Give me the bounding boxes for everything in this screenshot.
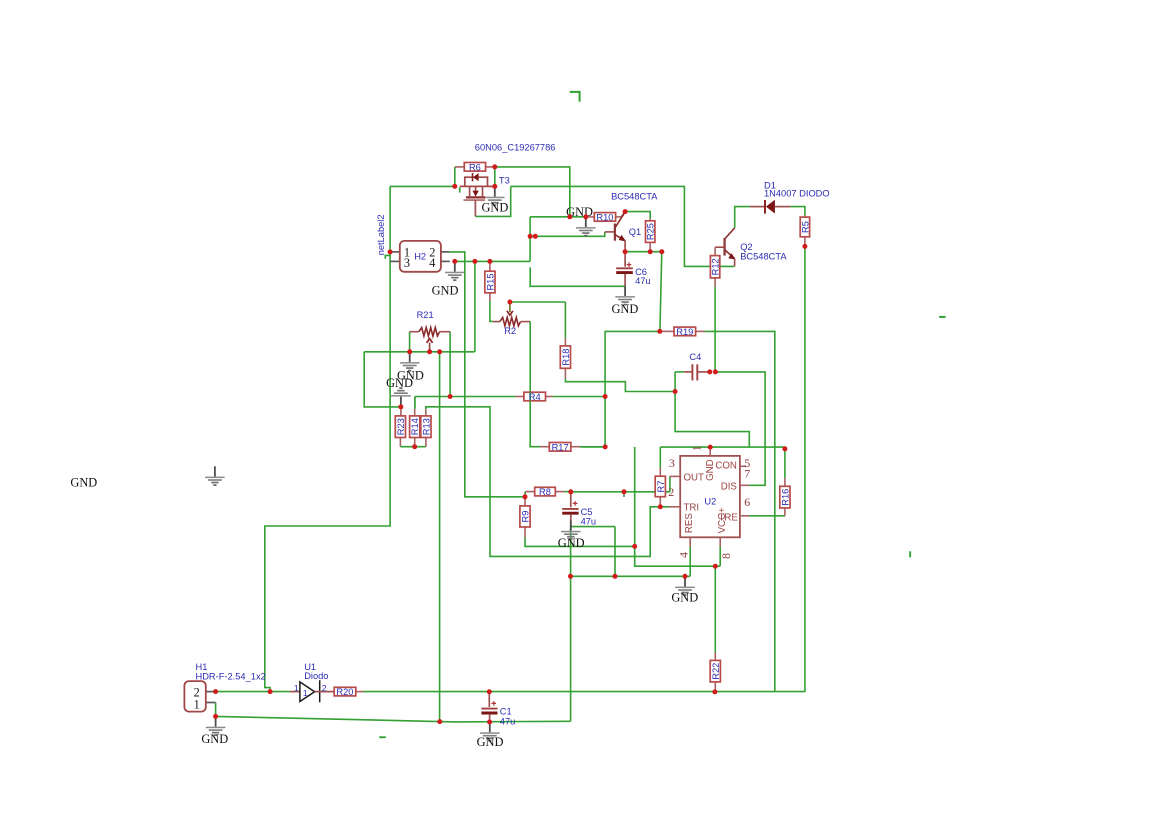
svg-text:VCC+: VCC+ <box>717 507 728 533</box>
svg-text:BC548CTA: BC548CTA <box>611 192 658 202</box>
wire H2 pin2 down to R8 node <box>450 252 525 497</box>
wire R12 bottom col <box>714 287 716 372</box>
wire C5 gnd col <box>570 527 572 722</box>
resistor R13 <box>421 409 432 446</box>
wire RES pin4 col <box>689 547 691 577</box>
wire R20 to right rail bottom <box>363 691 805 693</box>
wire C4 left stub <box>675 371 684 373</box>
wire T3 source loop <box>475 186 510 216</box>
wire R19 left col down <box>605 331 660 447</box>
svg-text:6: 6 <box>744 495 750 509</box>
wire R6 right to Q1 GND node <box>495 167 570 217</box>
wire R14 col row to junction <box>415 396 450 398</box>
svg-text:R20: R20 <box>336 687 353 697</box>
svg-text:C4: C4 <box>689 352 701 362</box>
potentiometer R21 <box>410 310 451 352</box>
resistor R17 <box>540 442 605 452</box>
wire R19 right to right rail <box>705 331 775 691</box>
svg-text:47u: 47u <box>500 717 516 727</box>
wire R23-R14-R13 bottom row <box>400 446 426 448</box>
svg-text:R7: R7 <box>656 481 666 493</box>
svg-text:60N06_C19267786: 60N06_C19267786 <box>475 142 556 152</box>
capacitor C6 47u <box>616 252 650 286</box>
wire C4 right to DIS col <box>715 372 765 485</box>
resistor R10 <box>586 212 625 223</box>
wire R2 right col to R17 <box>530 322 540 447</box>
resistor R6 <box>455 162 495 172</box>
wire R21 left lead col <box>409 332 411 352</box>
wire C6 bottom row <box>530 267 625 286</box>
wire R15 bottom to R2 <box>490 301 493 322</box>
svg-text:1: 1 <box>303 688 308 698</box>
svg-text:GND: GND <box>70 476 97 490</box>
diode D1 1N4007 <box>750 180 830 213</box>
wire R5 bottom right rail <box>804 246 806 691</box>
svg-text:2: 2 <box>322 683 327 693</box>
resistor R23 <box>395 407 406 447</box>
wire T3 gate rail left <box>454 167 456 186</box>
svg-text:R8: R8 <box>539 487 551 497</box>
stray mark right small vertical <box>909 551 911 557</box>
ground R21 row <box>400 352 420 372</box>
wire C5 bottom row <box>571 526 615 528</box>
wire R2 wiper row <box>510 301 566 303</box>
svg-text:R9: R9 <box>521 511 531 523</box>
wire R21 row left drop to GND2 node <box>364 352 401 407</box>
wire OUT jog <box>669 476 671 492</box>
ground C5 <box>561 521 581 541</box>
wire Q2 collector to D1 <box>735 207 750 228</box>
svg-text:GND: GND <box>201 732 228 746</box>
ground U2 RES row <box>675 576 695 596</box>
capacitor C5 47u <box>562 492 596 527</box>
svg-text:HDR-F-2.54_1x2: HDR-F-2.54_1x2 <box>196 672 266 682</box>
resistor R9 <box>520 497 531 538</box>
resistor R14 <box>410 397 421 447</box>
wire top rail to Q2 emitter <box>511 186 735 266</box>
stray mark top corner <box>570 92 580 102</box>
svg-text:GND: GND <box>481 201 508 215</box>
svg-text:U2: U2 <box>704 497 716 507</box>
wire D1 anode to R5 <box>790 207 805 216</box>
wire R6 right down to T3 drain <box>494 167 496 187</box>
svg-text:DIS: DIS <box>721 481 738 492</box>
wire H2 pin4 row <box>455 260 530 262</box>
svg-text:GND: GND <box>611 302 638 316</box>
capacitor C1 47u <box>481 692 515 727</box>
svg-text:R6: R6 <box>469 162 481 172</box>
svg-text:RES: RES <box>684 513 695 533</box>
svg-text:3: 3 <box>404 256 410 270</box>
svg-text:TRI: TRI <box>684 502 700 513</box>
capacitor C4 <box>684 352 708 380</box>
svg-text:1: 1 <box>690 445 704 451</box>
svg-text:C5: C5 <box>581 507 593 517</box>
svg-text:GND: GND <box>558 536 585 550</box>
wire Q1 base row <box>530 232 605 236</box>
svg-text:1: 1 <box>194 698 200 712</box>
svg-text:R13: R13 <box>421 418 431 435</box>
svg-text:R17: R17 <box>552 442 569 452</box>
resistor R25 <box>646 219 656 252</box>
op-amp U2 (555 timer box) <box>668 445 750 559</box>
ground near R10 <box>576 217 596 237</box>
wire Q1 emitter row <box>625 251 662 253</box>
svg-text:R4: R4 <box>529 392 541 402</box>
svg-text:R10: R10 <box>596 212 613 222</box>
wire U2 pin1 row <box>660 447 785 478</box>
wire R9 bottom row to col <box>525 537 635 546</box>
wire left rail top <box>390 185 455 187</box>
wire C4 node down to U2 pin1 row <box>675 372 749 447</box>
svg-text:R25: R25 <box>646 223 656 240</box>
wire R21 row <box>364 351 475 353</box>
svg-text:R15: R15 <box>485 273 495 290</box>
resistor R4 <box>515 392 552 402</box>
svg-text:R16: R16 <box>780 489 790 506</box>
svg-text:R5: R5 <box>801 221 811 233</box>
svg-text:R18: R18 <box>561 349 571 366</box>
svg-text:47u: 47u <box>581 517 597 527</box>
stray mark right dash <box>939 316 945 318</box>
wire GND node to R10 <box>530 216 586 218</box>
wire TRI row and col <box>426 407 670 557</box>
svg-text:GND: GND <box>671 591 698 605</box>
svg-text:1N4007 DIODO: 1N4007 DIODO <box>764 188 830 198</box>
wire Q1 emitter slant col <box>660 252 662 332</box>
ground C1 <box>480 722 500 742</box>
wire R4 row left <box>450 396 515 398</box>
resistor R15 <box>485 261 496 301</box>
wire OUT row <box>571 491 670 493</box>
svg-text:2: 2 <box>668 485 674 499</box>
wire left rail down to H1 row <box>265 186 390 691</box>
wire pin4 col up <box>529 217 531 262</box>
ground C6 <box>615 286 635 306</box>
svg-text:R2: R2 <box>504 326 516 336</box>
wire R7 top col <box>659 447 661 468</box>
resistor R22 <box>710 653 721 692</box>
connector H2 <box>390 241 450 272</box>
resistor R18 <box>560 338 571 378</box>
svg-text:GND: GND <box>477 735 504 749</box>
svg-text:GND: GND <box>432 284 459 298</box>
ground inverted above R23 <box>391 387 411 407</box>
transistor T3 (NMOS with body diode) <box>460 142 556 216</box>
resistor R12 <box>710 247 720 287</box>
svg-text:C1: C1 <box>500 707 512 717</box>
svg-text:H2: H2 <box>414 251 426 261</box>
wire R18 bottom jog row <box>565 378 675 391</box>
transistor Q2 BC548CTA <box>715 228 787 267</box>
resistor R8 <box>525 487 564 497</box>
wire netLabel2 hook <box>385 255 390 258</box>
stray mark bottom dash <box>379 736 386 738</box>
svg-text:R22: R22 <box>711 663 721 680</box>
ground T3 <box>485 186 505 206</box>
svg-text:R23: R23 <box>396 418 406 435</box>
resistor R5 <box>800 215 811 246</box>
svg-text:R19: R19 <box>676 327 693 337</box>
wire VCC col down to R22 <box>714 566 716 653</box>
diode U1 Diodo <box>290 662 334 702</box>
svg-text:GND: GND <box>386 376 413 390</box>
wire R8 left blip <box>524 492 526 497</box>
svg-text:R12: R12 <box>710 258 720 275</box>
resistor R19 <box>660 327 705 337</box>
svg-text:netLabel2: netLabel2 <box>376 214 386 255</box>
connector H1 <box>184 662 265 711</box>
wire R4 row right <box>553 396 606 398</box>
svg-text:R21: R21 <box>417 310 434 320</box>
svg-text:8: 8 <box>719 553 733 559</box>
svg-text:OUT: OUT <box>684 473 705 484</box>
wire long col R21row to bottom <box>439 352 441 722</box>
svg-text:3: 3 <box>669 456 675 470</box>
wire RES row <box>571 575 691 577</box>
ground H1 <box>206 716 226 736</box>
potentiometer R2 <box>493 303 530 336</box>
svg-text:Q1: Q1 <box>629 227 641 237</box>
wire pin8 riser <box>719 547 721 567</box>
resistor R16 <box>780 478 791 516</box>
wire TRE row <box>749 515 785 517</box>
svg-text:T3: T3 <box>499 175 510 185</box>
wire bottom row2 <box>216 716 571 722</box>
wire R8 right to C5 <box>564 491 571 493</box>
svg-text:CON: CON <box>715 460 737 471</box>
svg-text:BC548CTA: BC548CTA <box>740 251 787 261</box>
wire stub under OUT row dot <box>623 492 625 497</box>
ground H2 pin4 <box>445 261 465 281</box>
resistor R20 <box>334 687 363 697</box>
svg-text:47u: 47u <box>635 276 651 286</box>
wire H1 pin1 drop <box>215 703 217 717</box>
wire R18 top col <box>564 302 566 338</box>
ground floating left <box>205 466 225 486</box>
wire col to R21 row <box>474 261 476 351</box>
wire col R17 to pin8 row <box>635 447 721 566</box>
svg-text:Diodo: Diodo <box>304 671 328 681</box>
resistor R7 <box>655 468 666 507</box>
svg-text:R14: R14 <box>410 418 420 435</box>
svg-text:4: 4 <box>429 256 435 270</box>
wire col C5row to RES row <box>614 527 616 577</box>
wire Q1 collector to R25 <box>625 212 650 219</box>
svg-text:4: 4 <box>676 552 690 558</box>
wire R21 right col <box>449 332 451 397</box>
wire bottom row1 <box>216 691 290 693</box>
transistor Q1 BC548CTA <box>605 192 658 252</box>
svg-text:7: 7 <box>744 466 750 480</box>
svg-text:1: 1 <box>294 683 299 693</box>
